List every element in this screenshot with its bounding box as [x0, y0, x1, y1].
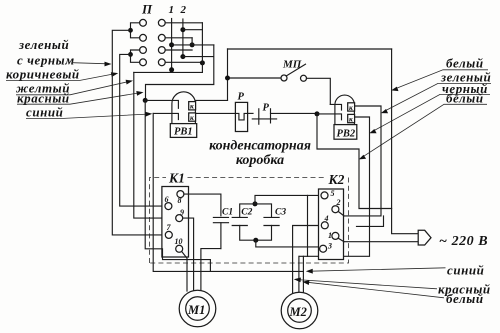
220V arrow head — [418, 230, 431, 245]
svg-text:к: к — [190, 113, 194, 122]
K2 terminal numbers — [324, 189, 341, 250]
junction dot MP — [225, 76, 230, 81]
RV1 input wire upper — [145, 100, 178, 108]
bottom link wire to yellow bus — [134, 71, 203, 73]
contact dot E — [169, 67, 174, 72]
pointer green right — [381, 83, 491, 113]
through wire from node A down — [307, 195, 309, 256]
neutral wire from dot to arrow top — [317, 114, 392, 209]
svg-text:к: к — [349, 115, 353, 124]
svg-text:9: 9 — [180, 208, 184, 217]
wire segment D to right riser — [146, 45, 214, 99]
svg-text:Р: Р — [263, 103, 270, 114]
K2 terminal 2 — [332, 206, 339, 213]
K2 terminal 4 — [321, 222, 328, 229]
C1 bottom wire to M1 right — [201, 249, 221, 291]
svg-text:синий: синий — [26, 105, 63, 120]
jog segment near K2 — [357, 216, 384, 227]
RV1 upper output to MP vertical — [196, 99, 228, 101]
terminal 10 lever to M1 left — [182, 252, 187, 292]
M2 wire middle — [298, 256, 300, 293]
svg-text:М2: М2 — [289, 305, 307, 319]
RV2 contact box k upper — [348, 103, 355, 112]
red bus from RV1 junction to K1 terminal 10 — [145, 100, 176, 248]
wire brown bus to K1 terminal 6 — [120, 54, 165, 206]
svg-text:1: 1 — [169, 4, 175, 16]
svg-text:М1: М1 — [187, 303, 205, 317]
svg-text:Р: Р — [238, 92, 245, 103]
wire terminal 8 to C1 top — [184, 194, 221, 216]
RV2 upper input — [330, 104, 341, 110]
svg-text:к: к — [349, 103, 353, 112]
K1 terminal block box — [162, 187, 189, 258]
contact dot B — [169, 42, 174, 47]
RV1 dome — [172, 92, 196, 124]
wire segment A to vertical — [183, 29, 203, 31]
svg-text:белый: белый — [446, 91, 484, 106]
K1 terminal 6 — [165, 203, 172, 210]
svg-text:2: 2 — [180, 4, 187, 16]
svg-text:10: 10 — [175, 237, 183, 246]
P coil (thermal element) — [235, 102, 247, 131]
K2 terminal 5 — [321, 192, 328, 199]
M2 wire right — [302, 256, 304, 294]
C3 capacitor — [255, 204, 279, 240]
svg-text:красный: красный — [17, 91, 70, 106]
pointer black right — [369, 94, 490, 133]
RV2 name box — [334, 125, 357, 140]
svg-text:к: к — [190, 102, 194, 111]
blue bus down to M2 — [153, 113, 303, 271]
pointer white2 — [359, 104, 487, 159]
wire green-black bus to K1 terminal 7 — [112, 30, 165, 235]
pointer blue left — [26, 112, 152, 119]
П left contact circles — [140, 19, 147, 65]
svg-text:~ 220 В: ~ 220 В — [439, 234, 488, 249]
svg-text:с черным: с черным — [17, 53, 75, 68]
junction dot before RV2 — [315, 111, 320, 116]
C1 capacitor — [213, 217, 228, 248]
svg-text:2: 2 — [336, 198, 341, 207]
motor M1 — [179, 290, 216, 327]
K2 terminal 3 — [320, 245, 327, 252]
MP wire from junction — [228, 77, 282, 79]
svg-text:К2: К2 — [328, 172, 345, 187]
RV1 input wire lower / blue bus corner — [153, 113, 178, 119]
RV1 contact box k upper — [189, 102, 196, 111]
pointer blue bottom — [306, 268, 446, 274]
svg-text:белый: белый — [446, 56, 484, 71]
pointer brown — [6, 72, 118, 80]
RV2 contact box k lower — [348, 114, 355, 123]
switch position line 1 — [171, 19, 173, 73]
RV1 contact box k lower — [189, 113, 196, 122]
wire segment B-C with riser — [172, 38, 214, 45]
RV1 lower output to P coil — [196, 112, 236, 114]
bottom node wire to K2 terminal 3 — [256, 240, 320, 247]
MP switch — [281, 64, 330, 104]
K1 terminal 7 — [165, 231, 172, 238]
yellow bus down to K1 terminal 9 — [134, 72, 176, 218]
svg-text:С3: С3 — [275, 207, 286, 217]
motor M2 — [281, 292, 318, 329]
K2 terminal block box — [319, 189, 344, 260]
svg-text:МП: МП — [282, 59, 302, 71]
contact dot D — [180, 54, 185, 59]
C2 capacitor — [232, 204, 256, 240]
label "зеленый с черным" — [17, 37, 75, 68]
RV2 upper output green wire — [344, 106, 381, 216]
contact dot A — [180, 27, 185, 32]
svg-text:6: 6 — [165, 195, 169, 204]
RV2 dome — [335, 95, 355, 125]
П right row stubs — [165, 23, 202, 63]
wire terminal 9 to M1 middle — [183, 218, 194, 291]
svg-text:зеленый: зеленый — [18, 37, 69, 52]
node A wire to K2 terminal 5 — [255, 195, 321, 204]
pointer red — [17, 91, 144, 104]
pointer white1 — [391, 70, 488, 91]
dashed enclosure of capacitor box — [150, 178, 349, 264]
wire K2 terminal 4 to M2 left — [293, 226, 322, 294]
svg-text:коричневый: коричневый — [6, 67, 80, 82]
svg-text:3: 3 — [327, 241, 332, 250]
junction dot L1 — [128, 28, 133, 33]
pointer red bottom — [294, 278, 437, 289]
П right contact circles — [158, 19, 165, 65]
K2 terminal 1 lever and wire to arrow bottom — [338, 238, 419, 241]
contact dot C — [190, 42, 195, 47]
P contact — [248, 109, 317, 124]
svg-text:РВ1: РВ1 — [174, 127, 193, 138]
svg-text:К1: К1 — [168, 171, 185, 186]
svg-text:коробка: коробка — [236, 153, 284, 168]
K2 terminal 2 lever — [338, 212, 344, 216]
svg-text:П: П — [141, 2, 153, 17]
switch position line 2 — [182, 19, 184, 57]
svg-text:конденсаторная: конденсаторная — [209, 139, 311, 154]
RV1 name box — [170, 124, 196, 138]
text капацит box title — [209, 139, 311, 168]
svg-text:4: 4 — [324, 214, 329, 223]
junction dot at RV1 left — [143, 98, 148, 103]
svg-text:белый: белый — [446, 291, 484, 306]
svg-text:1: 1 — [328, 231, 332, 240]
white bus vertical to arrow — [392, 49, 419, 234]
junction dot L2 — [128, 52, 133, 57]
RV2 lower output black wire — [299, 117, 369, 256]
svg-text:5: 5 — [331, 189, 335, 198]
K1 terminal 8 — [177, 191, 184, 198]
svg-text:С1: С1 — [222, 207, 233, 217]
C2 C3 top node dot — [253, 201, 258, 206]
vertical from row1 down to dot F — [201, 23, 203, 73]
RV2 lower input — [317, 114, 342, 120]
svg-text:синий: синий — [447, 263, 484, 278]
pointer yellow — [16, 80, 133, 95]
K2 terminal 1 — [332, 232, 339, 239]
pointer white bottom — [302, 280, 444, 298]
П left stubs and links — [131, 23, 140, 63]
K1 terminal 9 — [176, 215, 183, 222]
pointer green-black — [72, 62, 112, 67]
K1 terminal 10 — [176, 245, 183, 252]
top long wire to 220V vertical — [228, 48, 392, 50]
svg-text:С2: С2 — [241, 207, 252, 217]
contact dot F — [200, 60, 205, 65]
top wire from switch to MP node — [227, 49, 229, 101]
svg-text:РВ2: РВ2 — [337, 128, 356, 139]
C2 C3 bottom node dot — [253, 238, 258, 243]
svg-text:8: 8 — [178, 196, 182, 205]
stray link near K1 bottom — [163, 249, 211, 272]
K1 terminal numbers — [165, 195, 185, 246]
